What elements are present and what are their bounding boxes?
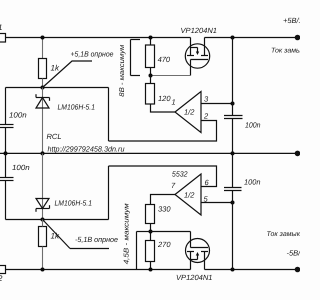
resistor R2 1k top	[42, 38, 44, 59]
svg-text:LM106H-5.1: LM106H-5.1	[58, 103, 96, 112]
svg-text:1: 1	[0, 23, 2, 32]
svg-text:470: 470	[158, 55, 171, 64]
svg-text:1k: 1k	[51, 232, 60, 241]
wire pin7 output	[151, 195, 176, 205]
wire sense vertical	[232, 38, 234, 116]
wire bottom rail right	[205, 269, 300, 271]
node junction top rail / 1k	[41, 36, 45, 40]
node junction top rail / 470	[149, 36, 153, 40]
resistor R5 1k bottom	[39, 227, 47, 247]
svg-text:100n: 100n	[244, 178, 261, 187]
pointer +5.1V reference	[43, 61, 93, 88]
svg-text:5532: 5532	[172, 170, 188, 179]
svg-text:1: 1	[172, 97, 176, 106]
capacitor C2 100n left bottom	[5, 153, 7, 177]
bracket measure 4.5V	[136, 232, 138, 270]
wire top rail right	[205, 37, 300, 39]
op-amp U1A 1/2	[175, 92, 201, 133]
wire pin5 to sense	[201, 202, 233, 204]
wire zener bottom node	[6, 219, 109, 221]
svg-text:1k: 1k	[51, 64, 60, 73]
resistor R3 470	[150, 38, 152, 46]
svg-text:100n: 100n	[12, 163, 30, 172]
capacitor C3 100n right top	[224, 115, 243, 117]
svg-text:100n: 100n	[245, 121, 261, 130]
transistor VT2 VP1204N1	[186, 239, 210, 263]
svg-text:http://299792458.3dn.ru: http://299792458.3dn.ru	[48, 145, 126, 154]
svg-text:+5В/100мА: +5В/100мА	[283, 16, 300, 25]
svg-text:120: 120	[158, 94, 171, 103]
node junction mid/zener column	[41, 151, 45, 155]
resistor R1 (left edge, clipped)	[0, 34, 6, 43]
svg-text:+5,1В опрное: +5,1В опрное	[71, 50, 114, 59]
node junction top rail / sense	[231, 36, 235, 40]
diode VD1 zener LM106H-5.1	[42, 88, 44, 154]
node junction gate/470/120	[149, 74, 153, 78]
svg-text:-5,1В опрное: -5,1В опрное	[75, 235, 118, 244]
svg-text:VP1204N1: VP1204N1	[176, 273, 213, 282]
node junction bottom rail / 270	[149, 268, 153, 272]
node junction 330/270/gate	[149, 230, 153, 234]
svg-text:Ток замыкания - 30мА: Ток замыкания - 30мА	[267, 231, 301, 238]
resistor R7 270	[146, 241, 155, 262]
wire zener top node	[6, 87, 109, 89]
wire pin3 to sense	[201, 103, 233, 105]
wire gate line bottom	[151, 231, 191, 233]
svg-text:Ток замыкания - 30мА: Ток замыкания - 30мА	[271, 48, 300, 55]
svg-text:VP1204N1: VP1204N1	[181, 26, 218, 35]
svg-text:-5В/100мА: -5В/100мА	[287, 249, 301, 258]
wire feedback vertical bottom	[108, 166, 110, 220]
wire top rail left	[6, 37, 191, 39]
wire gate line top	[151, 75, 191, 77]
wire mid rail	[0, 152, 299, 154]
node junction mid/sense	[231, 151, 235, 155]
svg-text:4,5В - максимум: 4,5В - максимум	[124, 203, 131, 264]
node +5V terminal	[295, 35, 301, 41]
wire bottom rail left	[6, 269, 191, 271]
wire pin6 feedback	[109, 166, 217, 187]
wire VT1 gate drop	[190, 60, 192, 76]
svg-text:LM106H-5.1: LM106H-5.1	[55, 199, 93, 208]
svg-text:270: 270	[157, 240, 171, 249]
node junction bottom rail / 1k	[41, 268, 45, 272]
resistor R4 120	[146, 84, 155, 105]
svg-text:RCL: RCL	[47, 132, 62, 141]
pointer -5.1V reference	[43, 220, 71, 249]
node junction mid/left rail	[4, 151, 8, 155]
node junction bottom rail / sense	[231, 268, 235, 272]
node junction pin5/sense	[231, 201, 235, 205]
wire pin2 feedback	[109, 121, 217, 142]
resistor R8 (left edge, clipped)	[0, 266, 6, 274]
svg-text:100n: 100n	[9, 111, 27, 120]
node junction pin3/sense	[231, 102, 235, 106]
svg-text:1/2: 1/2	[184, 108, 195, 117]
bracket measure 8V	[130, 40, 132, 76]
svg-text:330: 330	[158, 205, 171, 214]
wire bracket link bottom	[137, 231, 151, 233]
node junction zener1 top	[41, 86, 45, 90]
diode VD2 zener LM106H-5.1	[42, 153, 44, 219]
svg-text:8В - максимум: 8В - максимум	[119, 44, 126, 96]
node -5V terminal	[295, 267, 301, 273]
wire feedback vertical top	[108, 88, 110, 142]
svg-text:2: 2	[203, 111, 209, 120]
capacitor C1 100n left top	[5, 88, 7, 125]
svg-text:1/2: 1/2	[184, 191, 195, 200]
capacitor C4 100n right bottom	[224, 187, 242, 189]
resistor R6 330	[146, 205, 155, 224]
node junction zener2 bottom	[41, 218, 45, 222]
node 0V terminal	[295, 151, 301, 157]
